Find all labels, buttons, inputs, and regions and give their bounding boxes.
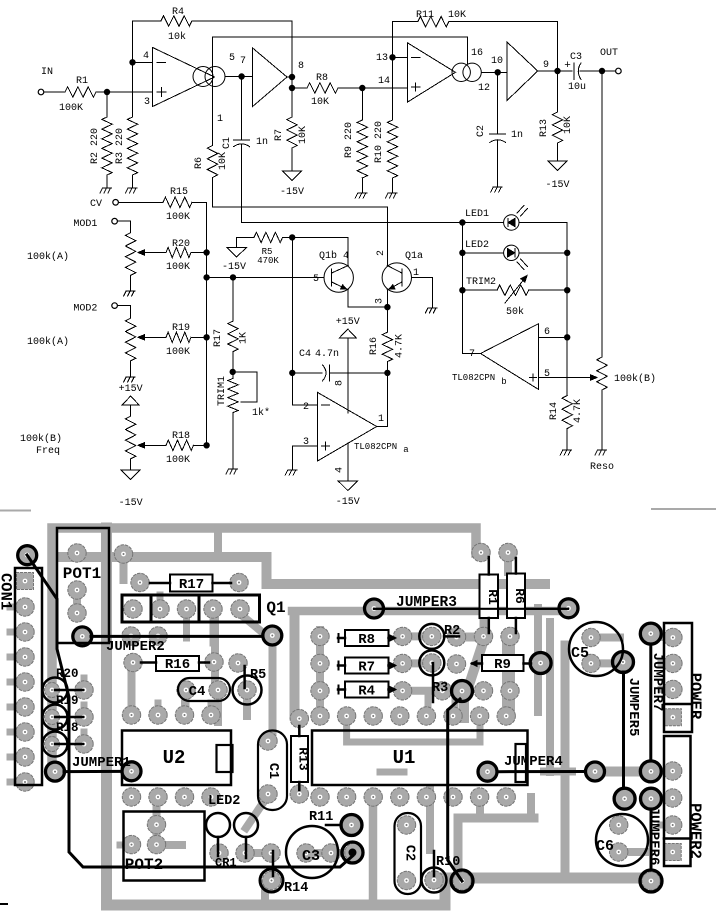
svg-text:R19: R19	[56, 694, 79, 708]
svg-text:R6: R6	[512, 588, 527, 604]
svg-text:9: 9	[543, 60, 549, 71]
svg-text:R20: R20	[56, 667, 79, 681]
svg-text:1: 1	[413, 268, 419, 279]
svg-text:R6: R6	[194, 157, 205, 169]
svg-text:C4: C4	[189, 684, 206, 700]
svg-text:R17: R17	[179, 577, 204, 593]
svg-text:R2 220: R2 220	[90, 128, 101, 164]
svg-text:14: 14	[378, 76, 390, 87]
svg-text:R19: R19	[172, 323, 190, 334]
svg-text:Q1b: Q1b	[319, 250, 337, 262]
svg-text:MOD1: MOD1	[73, 219, 97, 230]
svg-text:R5: R5	[250, 668, 266, 683]
svg-text:MOD2: MOD2	[73, 304, 97, 315]
svg-text:100K: 100K	[166, 212, 190, 223]
svg-text:LED2: LED2	[208, 794, 240, 809]
svg-text:R4: R4	[172, 7, 184, 18]
svg-text:POWER2: POWER2	[686, 803, 704, 859]
svg-text:1: 1	[217, 114, 223, 125]
svg-text:4: 4	[343, 251, 349, 262]
svg-text:5: 5	[544, 369, 550, 380]
svg-text:1n: 1n	[256, 137, 268, 148]
svg-text:R4: R4	[358, 684, 375, 700]
svg-text:4: 4	[335, 467, 346, 473]
svg-text:-15V: -15V	[222, 262, 246, 273]
svg-text:R11: R11	[309, 810, 333, 825]
svg-text:POWER: POWER	[686, 673, 704, 720]
svg-text:CON1: CON1	[0, 573, 15, 610]
svg-text:R8: R8	[358, 632, 375, 648]
svg-text:b: b	[501, 377, 506, 387]
svg-text:R20: R20	[172, 239, 190, 250]
svg-text:+15V: +15V	[119, 384, 143, 395]
svg-text:100K: 100K	[166, 262, 190, 273]
svg-text:-15V: -15V	[119, 498, 143, 509]
svg-text:TL082CPN: TL082CPN	[354, 442, 397, 452]
svg-text:1n: 1n	[511, 130, 523, 141]
svg-text:1K: 1K	[239, 332, 250, 344]
svg-text:16: 16	[471, 48, 483, 59]
svg-text:Reso: Reso	[590, 462, 614, 473]
svg-text:1k*: 1k*	[252, 407, 270, 419]
svg-text:10k: 10k	[168, 31, 186, 43]
svg-text:R1: R1	[485, 589, 500, 605]
svg-text:4: 4	[143, 51, 149, 62]
svg-text:3: 3	[374, 298, 385, 304]
svg-text:TRIM2: TRIM2	[466, 277, 496, 288]
svg-text:R18: R18	[172, 431, 190, 442]
svg-text:-15V: -15V	[336, 497, 360, 508]
svg-text:C2: C2	[476, 125, 487, 137]
svg-text:C5: C5	[571, 645, 589, 662]
svg-text:100k(A): 100k(A)	[27, 251, 69, 263]
svg-text:a: a	[403, 445, 409, 455]
svg-text:CV: CV	[90, 199, 102, 210]
svg-text:C2: C2	[402, 845, 417, 861]
svg-text:100k(B): 100k(B)	[614, 373, 656, 385]
svg-text:4.7K: 4.7K	[573, 399, 584, 423]
svg-text:10K: 10K	[298, 126, 309, 144]
svg-text:C3: C3	[302, 848, 320, 865]
svg-text:R13: R13	[539, 119, 550, 137]
svg-text:7: 7	[240, 56, 246, 67]
svg-text:R16: R16	[369, 337, 380, 355]
svg-text:C1: C1	[265, 763, 280, 779]
svg-text:C3: C3	[570, 52, 582, 63]
svg-text:R3 220: R3 220	[115, 128, 126, 164]
svg-text:R15: R15	[170, 187, 188, 198]
svg-text:7: 7	[469, 349, 475, 360]
svg-text:470K: 470K	[257, 256, 279, 266]
svg-text:2: 2	[303, 402, 309, 413]
svg-text:100k(B): 100k(B)	[20, 433, 62, 445]
svg-text:6: 6	[544, 327, 550, 338]
svg-text:R7: R7	[274, 129, 285, 141]
svg-text:50k: 50k	[506, 306, 524, 318]
svg-text:R3: R3	[432, 681, 448, 696]
svg-text:12: 12	[478, 83, 490, 94]
svg-text:JUMPER5: JUMPER5	[625, 678, 641, 737]
svg-text:R9 220: R9 220	[344, 122, 355, 158]
svg-text:R13: R13	[296, 747, 311, 771]
svg-text:U2: U2	[163, 747, 186, 769]
svg-text:10u: 10u	[568, 82, 586, 93]
svg-text:8: 8	[335, 380, 346, 386]
svg-text:10K: 10K	[311, 97, 329, 108]
svg-text:100k(A): 100k(A)	[27, 336, 69, 348]
svg-text:POT2: POT2	[125, 856, 163, 874]
svg-text:R16: R16	[165, 657, 190, 673]
svg-text:-15V: -15V	[545, 180, 569, 191]
svg-text:IN: IN	[41, 67, 53, 78]
svg-text:R14: R14	[549, 402, 560, 420]
svg-text:100K: 100K	[59, 103, 83, 114]
svg-text:1: 1	[378, 414, 384, 425]
svg-text:10K: 10K	[218, 152, 229, 170]
svg-text:R1: R1	[76, 76, 88, 87]
svg-text:10K: 10K	[563, 116, 574, 134]
svg-text:R18: R18	[56, 721, 79, 735]
svg-text:R10: R10	[436, 855, 460, 870]
svg-text:POT1: POT1	[63, 565, 101, 583]
svg-text:R17: R17	[213, 329, 224, 347]
svg-text:OUT: OUT	[600, 48, 618, 59]
svg-text:R10 220: R10 220	[374, 121, 385, 163]
svg-text:100K: 100K	[166, 347, 190, 358]
svg-text:10: 10	[491, 56, 503, 67]
svg-text:+: +	[564, 60, 571, 72]
svg-text:R14: R14	[284, 881, 308, 896]
svg-text:-15V: -15V	[280, 187, 304, 198]
svg-text:R2: R2	[444, 624, 460, 639]
svg-text:LED1: LED1	[465, 209, 489, 220]
svg-text:R8: R8	[316, 73, 328, 84]
svg-text:5: 5	[313, 274, 319, 285]
svg-text:Q1a: Q1a	[405, 251, 423, 262]
svg-text:100K: 100K	[166, 455, 190, 466]
svg-text:3: 3	[303, 437, 309, 448]
svg-text:TL082CPN: TL082CPN	[452, 373, 495, 383]
svg-text:C1: C1	[222, 137, 233, 149]
svg-text:R9: R9	[494, 657, 511, 673]
svg-text:JUMPER7: JUMPER7	[649, 653, 665, 712]
svg-text:JUMPER2: JUMPER2	[106, 639, 165, 655]
svg-text:CR1: CR1	[215, 856, 237, 870]
svg-text:JUMPER4: JUMPER4	[504, 754, 563, 770]
svg-text:+15V: +15V	[336, 317, 360, 328]
svg-text:LED2: LED2	[465, 240, 489, 251]
svg-text:8: 8	[298, 61, 304, 72]
svg-text:C6: C6	[596, 838, 614, 855]
svg-text:10K: 10K	[448, 10, 466, 21]
svg-text:R11: R11	[416, 10, 434, 21]
svg-text:Freq: Freq	[36, 446, 60, 457]
svg-text:TRIM1: TRIM1	[217, 376, 228, 406]
svg-text:3: 3	[144, 97, 150, 108]
svg-text:Q1: Q1	[266, 599, 285, 617]
svg-text:R7: R7	[358, 660, 375, 676]
svg-text:C4: C4	[299, 349, 311, 360]
svg-text:13: 13	[376, 53, 388, 64]
svg-text:4.7n: 4.7n	[315, 349, 339, 360]
svg-text:U1: U1	[393, 747, 416, 769]
svg-text:5: 5	[229, 53, 235, 64]
svg-text:4.7K: 4.7K	[394, 334, 405, 358]
svg-text:2: 2	[376, 250, 387, 256]
